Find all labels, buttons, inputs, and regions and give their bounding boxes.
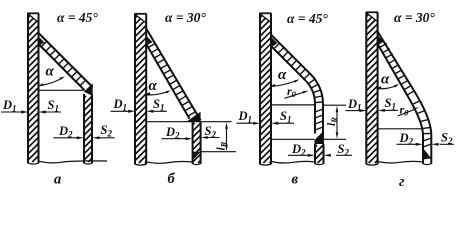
weld top (panel b) bbox=[145, 35, 152, 47]
svg-text:г: г bbox=[399, 174, 405, 190]
svg-text:α: α bbox=[278, 67, 287, 83]
line lR bottom (panel b) bbox=[201, 151, 236, 153]
weld at cone-pipe joint (panel b) bbox=[187, 112, 201, 122]
S1 dimension (panel d) bbox=[378, 96, 398, 112]
svg-text:α = 30°: α = 30° bbox=[165, 10, 206, 25]
svg-text:б: б bbox=[168, 171, 176, 187]
curved band 30 with radius r0 (panel d) bbox=[378, 32, 432, 150]
weld bottom (panel a) bbox=[84, 83, 93, 96]
weld pipe bottom (panel b) bbox=[193, 152, 201, 161]
svg-text:α: α bbox=[46, 64, 55, 80]
small pipe wall S2 (panel d) bbox=[423, 150, 432, 165]
S2 dimension (panel d) bbox=[432, 131, 454, 147]
svg-text:α: α bbox=[381, 72, 390, 88]
r0 dimension (panel c) bbox=[285, 84, 309, 99]
small pipe wall S2 (panel a) bbox=[84, 94, 93, 164]
S2 dimension (panel b) bbox=[201, 124, 220, 140]
D2 dimension (panel b) bbox=[162, 125, 193, 141]
weld top (panel c) bbox=[270, 36, 277, 48]
weld top (panel a) bbox=[38, 36, 45, 47]
big pipe wall S1 (panel d) bbox=[366, 12, 378, 165]
D1 dimension (panel a) bbox=[1, 98, 28, 114]
D1 dimension (panel c) bbox=[237, 109, 261, 125]
alpha arc (panel c) bbox=[270, 67, 299, 87]
line lR top (panel b) bbox=[146, 121, 231, 123]
S1 dimension (panel b) bbox=[146, 97, 167, 113]
cone band 45 (panel a) bbox=[39, 33, 93, 90]
svg-text:а: а bbox=[54, 172, 61, 188]
svg-text:α: α bbox=[149, 78, 158, 94]
alpha arc (panel b) bbox=[145, 78, 171, 95]
lR dimension (panel b) bbox=[216, 122, 229, 151]
line D2 level (panel d) bbox=[378, 128, 423, 130]
lR dimension (panel c) bbox=[326, 106, 339, 139]
wavy break (panel c) bbox=[271, 161, 315, 163]
wavy break (panel d) bbox=[378, 161, 423, 163]
alpha arc (panel a) bbox=[38, 64, 65, 86]
weld bottom (panel d) bbox=[423, 148, 432, 160]
S1 dimension (panel c) bbox=[271, 109, 294, 125]
svg-text:α = 45°: α = 45° bbox=[287, 11, 328, 26]
line top (panel c) bbox=[271, 104, 315, 106]
D2 dimension (panel d) bbox=[397, 131, 423, 147]
D1 dimension (panel d) bbox=[346, 97, 367, 113]
small pipe wall S2 (panel c) bbox=[315, 144, 325, 165]
wavy break (panel a) bbox=[39, 161, 108, 163]
line bottom (panel c) bbox=[271, 138, 315, 140]
D2 dimension (panel a) bbox=[54, 124, 84, 140]
cone band 30 (panel b) bbox=[146, 29, 201, 121]
weld top (panel d) bbox=[377, 35, 384, 47]
S2 dimension (panel a) bbox=[92, 123, 114, 139]
svg-text:α = 30°: α = 30° bbox=[394, 10, 435, 25]
big pipe wall S1 (panel c) bbox=[260, 13, 272, 165]
collar + small pipe wall S2 (panel b) bbox=[192, 122, 201, 165]
weld bottom (panel c) bbox=[315, 131, 325, 144]
D1 dimension (panel b) bbox=[111, 97, 136, 113]
D2 dimension (panel c) bbox=[288, 142, 315, 158]
S1 dimension (panel a) bbox=[39, 98, 61, 114]
wavy break (panel b) bbox=[146, 162, 192, 164]
alpha arc (panel d) bbox=[376, 72, 400, 89]
curved band 45 with radius r0 (panel c) bbox=[271, 35, 323, 140]
r0 dimension (panel d) bbox=[398, 103, 420, 118]
big pipe wall S1 (panel a) bbox=[28, 13, 40, 164]
svg-text:α = 45°: α = 45° bbox=[57, 10, 98, 25]
svg-text:в: в bbox=[292, 172, 299, 188]
big pipe wall S1 (panel b) bbox=[135, 14, 147, 165]
inner line D1 level (panel a) bbox=[39, 89, 85, 91]
S2 dimension (panel c) bbox=[324, 142, 352, 158]
